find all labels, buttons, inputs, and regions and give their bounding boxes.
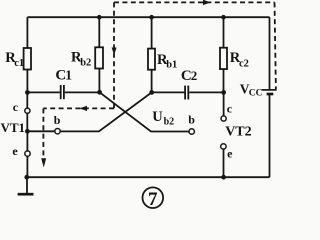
resistor Rb1	[148, 49, 155, 70]
terminal VT1 b	[55, 129, 60, 134]
figure number 7 circled	[143, 187, 164, 209]
svg-text:U: U	[152, 109, 163, 125]
resistor Rc2	[220, 48, 227, 69]
wire C2 left lead	[152, 91, 185, 93]
wire Rc2 top lead	[223, 17, 225, 48]
wire dashed mid horizontal	[43, 107, 114, 109]
terminal circles	[25, 108, 226, 156]
node Rb2 top	[97, 15, 102, 20]
wire cross-coupling D1 to VT2 base	[100, 92, 190, 131]
terminal VT2 e	[221, 144, 226, 149]
node R C2-Rb1	[149, 90, 154, 95]
capacitor C2 right plate	[187, 86, 189, 100]
node VT2 emitter rail	[221, 175, 226, 180]
wire Rb2 bottom lead	[98, 69, 100, 92]
arrow left on dashed mid horizontal	[79, 106, 87, 111]
wire Rc1 bottom lead	[26, 70, 28, 93]
wire Rc2 bottom lead	[223, 69, 225, 92]
dashed feedback path	[43, 2, 276, 156]
capacitor C2 left plate	[184, 86, 186, 100]
resistor Rb2	[95, 47, 103, 68]
node Rb1 top	[149, 15, 154, 20]
wire dashed right edge	[275, 2, 276, 89]
node Rc2 bottom / C2	[221, 90, 226, 95]
node ground junction	[24, 175, 29, 180]
arrow right on dashed top edge	[203, 0, 211, 5]
terminal VT2 c	[221, 116, 226, 121]
node VT1 base	[25, 129, 30, 134]
wire dashed top edge	[114, 1, 275, 3]
svg-text:c: c	[13, 100, 19, 114]
battery VCC short plate	[267, 93, 274, 96]
capacitor C1 right plate	[63, 85, 65, 99]
wire dashed left vertical	[42, 108, 44, 156]
wire C2 right lead	[189, 91, 223, 93]
wire VT1 emitter lead	[26, 156, 28, 177]
resistor Rc1	[24, 48, 31, 70]
wire dashed mid vertical	[113, 2, 115, 108]
wire VT1 collector lead	[26, 92, 28, 108]
arrow down on dashed mid vertical	[112, 48, 117, 56]
capacitor C1 left plate	[60, 85, 62, 99]
svg-text:VT2: VT2	[225, 125, 251, 140]
wire Rb1 top lead	[151, 17, 153, 48]
svg-text:e: e	[227, 147, 233, 161]
wire VT2 collector lead	[223, 92, 225, 116]
svg-text:c2: c2	[239, 58, 249, 69]
wire VT2 emitter lead	[223, 149, 225, 177]
wire bottom rail	[27, 176, 270, 178]
svg-text:b2: b2	[164, 116, 175, 127]
node Rc2 top	[221, 15, 226, 20]
svg-text:1: 1	[65, 68, 72, 83]
wire Rc1 top lead	[26, 17, 28, 48]
svg-text:VT1: VT1	[1, 120, 26, 135]
node Rc1 bottom / C1	[25, 90, 30, 95]
wire Rb1 bottom lead	[151, 70, 153, 93]
svg-text:b: b	[54, 113, 61, 127]
battery VCC long plate	[262, 89, 277, 91]
wire VT1 b-to-e segment	[26, 131, 28, 151]
svg-text:2: 2	[191, 68, 198, 83]
svg-text:b: b	[188, 113, 195, 127]
wire C1 left lead	[27, 91, 60, 93]
terminal VT1 c	[25, 108, 30, 113]
wire VT1 base lead	[27, 130, 55, 132]
svg-text:c: c	[227, 102, 233, 116]
svg-text:CC: CC	[249, 88, 263, 98]
svg-text:b1: b1	[166, 60, 177, 71]
terminal VT2 b	[189, 129, 194, 134]
wire VT1 c-to-b segment	[26, 113, 28, 131]
svg-text:7: 7	[148, 189, 158, 209]
wire Rb2 top lead	[98, 17, 100, 47]
wire top rail	[27, 16, 269, 18]
svg-text:e: e	[12, 144, 18, 158]
wire C1 right lead	[65, 91, 100, 93]
wire cross-coupling D2 to VT1 base	[60, 92, 152, 131]
ground bar	[18, 193, 34, 196]
arrow down on dashed left vertical	[41, 158, 46, 167]
terminal VT1 e	[25, 151, 30, 156]
wire right edge upper	[269, 17, 271, 89]
node L C1-Rb2	[97, 90, 102, 95]
wire right edge lower	[269, 95, 271, 177]
ground stub	[26, 177, 28, 193]
svg-text:c1: c1	[14, 58, 24, 69]
svg-text:b2: b2	[80, 58, 91, 69]
